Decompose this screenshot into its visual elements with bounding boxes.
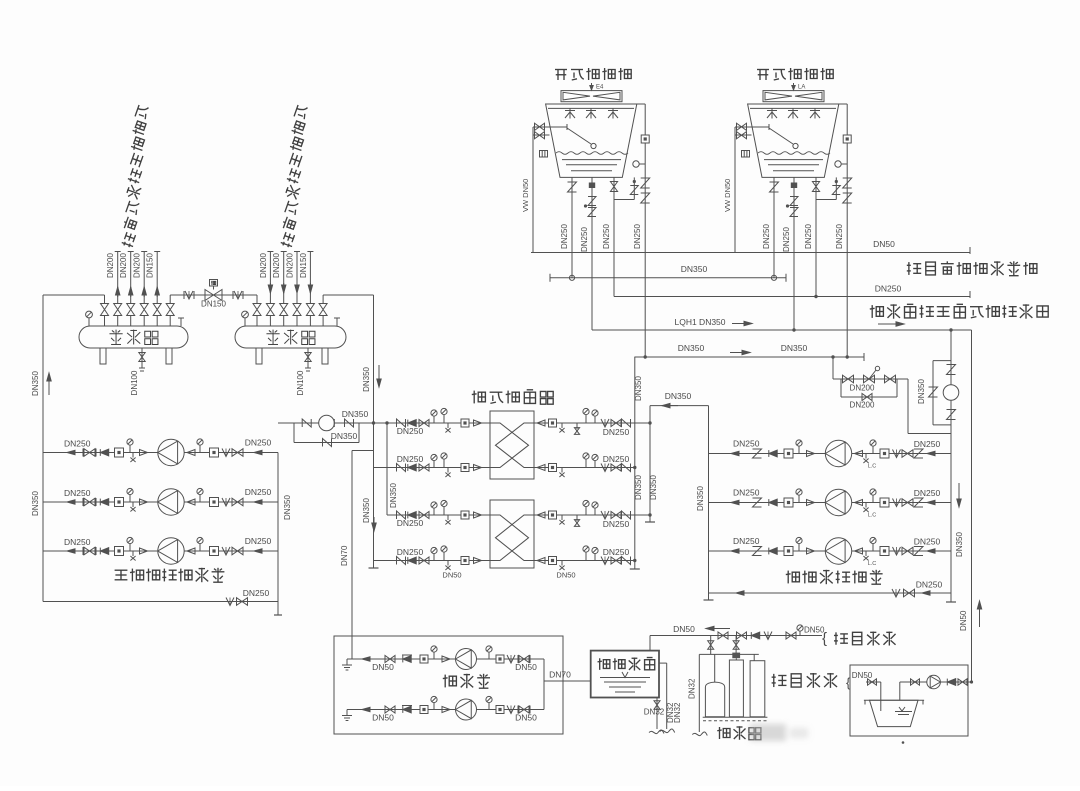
svg-text:DN250: DN250 bbox=[733, 488, 760, 498]
pump chiller-pump-row2 bbox=[158, 489, 184, 515]
flow arrow makeup-pump-row2 bbox=[362, 709, 373, 711]
svg-text:DN250: DN250 bbox=[603, 519, 630, 529]
meter bypass loop bbox=[293, 423, 295, 443]
spray header T2 bbox=[750, 107, 836, 109]
svg-text:DN250: DN250 bbox=[397, 518, 424, 528]
wire cooling bottom pipe y593 bbox=[709, 592, 952, 594]
reducer makeup-pump-row1 bbox=[442, 656, 450, 662]
soft joint chiller-pump-row3 bbox=[222, 547, 230, 555]
valve V2 on FSQ bbox=[117, 316, 119, 327]
vessel FSQ 分水器 body bbox=[79, 326, 188, 348]
flow arrow chiller-pump-row1 bbox=[67, 452, 81, 454]
svg-text:DN250: DN250 bbox=[602, 224, 611, 249]
filter cooling-pump-row3 discharge bbox=[880, 547, 889, 556]
check valve HX2-bot-left bbox=[408, 557, 416, 564]
label 软水器 bbox=[717, 726, 761, 740]
flow arrow cooling-pump-row1 end bbox=[927, 453, 940, 455]
filter makeup-pump-row2 bbox=[420, 706, 428, 714]
gauge HX2-top-left bbox=[443, 506, 445, 515]
reducer cooling-pump-row3 bbox=[807, 548, 815, 554]
valve cooling-pump-row3 bbox=[902, 547, 913, 555]
valve DN150 interconnect bbox=[205, 290, 222, 301]
wire makeup-pump-row2 pipe bbox=[347, 709, 544, 711]
flex joint cooling-pump-row1 end bbox=[914, 449, 923, 458]
wire HX1-top-right right pipe bbox=[534, 422, 650, 424]
sump enclosure box bbox=[850, 665, 968, 736]
check valve HX1-top-left bbox=[408, 420, 416, 427]
label riser-room text left (rotated) bbox=[120, 104, 150, 249]
drain HX1-bot-left bbox=[447, 468, 449, 473]
DN200 makeup branch bbox=[832, 357, 834, 379]
pump cooling-pump-row1 bbox=[825, 440, 851, 466]
svg-text:LA: LA bbox=[798, 85, 805, 91]
watermark blur bbox=[750, 724, 808, 741]
gauge HX1-bot-right bbox=[585, 459, 587, 468]
svg-text:DN250: DN250 bbox=[603, 454, 630, 464]
gauge chiller-pump-row1 discharge bbox=[199, 445, 201, 453]
drain direction arrow bbox=[878, 323, 904, 325]
valve chiller-pump-row3 discharge bbox=[232, 547, 243, 555]
flex joint below strainer bbox=[947, 410, 956, 420]
wire cooling connector y405.6 bbox=[650, 405, 709, 407]
check valve makeup-pump-row2 bbox=[403, 706, 411, 713]
filter cooling-pump-row2 bbox=[784, 498, 793, 507]
filter HX1-top-left bbox=[461, 419, 469, 427]
svg-text:DN250: DN250 bbox=[603, 427, 630, 437]
hot riser T1 bbox=[637, 103, 645, 105]
gauge tap bbox=[799, 631, 801, 636]
filter HX2-top-right bbox=[549, 511, 557, 519]
vent on FSQ bbox=[180, 318, 182, 326]
wire cooling-pump-row1 pipe bbox=[709, 453, 952, 455]
valve DN200 branch 2 bbox=[885, 375, 896, 383]
filter chiller-pump-row2 bbox=[115, 498, 124, 507]
JSQ riser DN200 #2 bbox=[283, 252, 285, 296]
vessel JSQ legs bbox=[256, 348, 262, 364]
softener base bbox=[703, 716, 768, 718]
svg-text:DN50: DN50 bbox=[673, 624, 695, 634]
filter makeup-pump-row1 bbox=[420, 655, 428, 663]
flex joint HX2-top-left bbox=[397, 511, 406, 519]
valve tap 3 bbox=[786, 632, 796, 639]
drain cooling-pump-row1 bbox=[865, 454, 867, 459]
svg-text:DN350: DN350 bbox=[665, 391, 692, 401]
gauge on FSQ bbox=[88, 318, 90, 326]
svg-text:DN250: DN250 bbox=[243, 588, 270, 598]
check valve chiller-pump-row3 bbox=[100, 548, 108, 555]
pump cooling-pump-row2 bbox=[825, 489, 851, 515]
label 主机侧循环水泵 bbox=[115, 568, 225, 582]
wire cooling-pump-row3 pipe bbox=[709, 550, 952, 552]
valve V6 on JSQ bbox=[322, 316, 324, 327]
drain HX1-top-left bbox=[447, 423, 449, 428]
gauge makeup-pump-row1 bbox=[433, 652, 435, 659]
basin water line T2 bbox=[758, 152, 830, 155]
reducer HX2-top-right bbox=[537, 512, 545, 518]
valve V3 on FSQ bbox=[130, 316, 132, 327]
filter HX2-bot-left bbox=[461, 557, 469, 565]
reducer HX1-top-right bbox=[537, 420, 545, 426]
svg-text:DN50: DN50 bbox=[852, 671, 873, 680]
flow arrow cooling-pump-row2 bbox=[731, 502, 745, 504]
svg-text:L.C: L.C bbox=[868, 561, 877, 567]
thermometer HX2-top-right bbox=[594, 508, 596, 515]
valve V5 on JSQ bbox=[309, 316, 311, 327]
valve HX1-top-right bbox=[611, 420, 621, 427]
svg-text:DN250: DN250 bbox=[914, 439, 941, 449]
svg-text:DN200: DN200 bbox=[133, 253, 142, 278]
reducer chiller-pump-row3 suction bbox=[140, 548, 148, 554]
makeup double valve T1 bbox=[533, 126, 549, 128]
strainer circle bbox=[943, 385, 959, 401]
valve V1 on JSQ bbox=[256, 316, 258, 327]
filter chiller-pump-row3 bbox=[115, 547, 124, 556]
check valve cooling-pump-row3 bbox=[769, 548, 777, 555]
thermometer HX2-top-left bbox=[433, 508, 435, 515]
spray nozzle T1 bbox=[565, 110, 575, 112]
check valve cooling-pump-row2 bbox=[769, 499, 777, 506]
FSQ drain DN100 bbox=[141, 348, 143, 368]
wire LQH1 DN350 line y330 bbox=[592, 329, 972, 331]
svg-text:DN350: DN350 bbox=[31, 371, 40, 396]
svg-text:DN250: DN250 bbox=[64, 439, 91, 449]
wire HX2-top-left left pipe bbox=[387, 514, 490, 516]
drain HX2-bot-right bbox=[561, 561, 563, 566]
filter chiller-pump-row3 discharge bbox=[210, 547, 219, 556]
wire DN350 hot header y357 bbox=[634, 356, 864, 358]
reducer cooling-pump-row3 discharge bbox=[855, 548, 863, 554]
flow arrow chiller-pump-row3 discharge bbox=[254, 550, 268, 552]
reducer HX1-bot-left bbox=[474, 465, 482, 471]
softener control head bbox=[732, 653, 740, 659]
gauge cooling-pump-row2 discharge bbox=[872, 495, 874, 503]
drain HX1-top-right bbox=[561, 423, 563, 428]
heat exchanger HX1 body bbox=[490, 411, 534, 479]
label 冷却水循环泵 bbox=[786, 570, 883, 584]
svg-text:DN350: DN350 bbox=[342, 409, 369, 419]
drain cooling-pump-row2 bbox=[865, 503, 867, 508]
soft joint chiller-pump-row1 bbox=[222, 449, 230, 457]
wire makeup DN50 header y252.5 bbox=[531, 252, 970, 254]
check valve cooling-pump-row1 bbox=[769, 450, 777, 457]
wire interconnect FSQ-JSQ bbox=[170, 294, 257, 296]
wire chiller-pump-row2 pipe bbox=[43, 501, 278, 503]
spray header T1 bbox=[548, 107, 634, 109]
flow arrow on connector bbox=[662, 405, 678, 407]
tower body T1 bbox=[546, 104, 637, 177]
gauge HX2-top-right bbox=[585, 506, 587, 515]
gauge cooling-pump-row3 suction bbox=[798, 543, 800, 551]
suction symbol makeup-pump-row1 bbox=[346, 659, 348, 665]
valve DN200 branch 1 bbox=[843, 375, 854, 383]
reducer chiller-pump-row1 suction bbox=[140, 450, 148, 456]
filter makeup-pump-row1 discharge bbox=[496, 655, 504, 663]
gauge cooling-pump-row2 suction bbox=[798, 495, 800, 503]
svg-text:DN250: DN250 bbox=[245, 536, 272, 546]
soft joint cooling-pump-row2 bbox=[893, 499, 901, 507]
quick fill fitting T1 bbox=[540, 151, 548, 158]
gauge HX2-bot-left bbox=[443, 552, 445, 561]
wire DN250 drain line y296.5 bbox=[614, 296, 970, 298]
reducer HX2-bot-left bbox=[474, 558, 482, 564]
filter cooling-pump-row2 discharge bbox=[880, 498, 889, 507]
pipe left border DN350 vertical bbox=[42, 295, 44, 602]
drain HX2-top-right bbox=[561, 515, 563, 520]
svg-text:DN250: DN250 bbox=[914, 537, 941, 547]
wire HX2-top-right right pipe bbox=[534, 514, 650, 516]
wire tap to sump tank bbox=[866, 681, 881, 683]
sump tank bbox=[864, 699, 924, 701]
wire chiller-pump-row3 pipe bbox=[43, 550, 278, 552]
svg-text:{: { bbox=[822, 630, 827, 647]
wire suction from tank DN70 bbox=[544, 680, 591, 682]
flex joint cooling-pump-row2 bbox=[753, 498, 762, 507]
wire cooling-pump-row2 pipe bbox=[709, 502, 952, 504]
reducer cooling-pump-row1 discharge bbox=[855, 451, 863, 457]
filter chiller-pump-row1 bbox=[115, 448, 124, 457]
svg-text:DN250: DN250 bbox=[782, 227, 791, 252]
valve on DN200 bypass bbox=[862, 394, 872, 401]
svg-text:DN200: DN200 bbox=[850, 384, 875, 393]
flow arrow cooling-pump-row2 end bbox=[927, 502, 940, 504]
flow arrow cooling-pump-row3 bbox=[731, 550, 745, 552]
svg-text:DN350: DN350 bbox=[649, 475, 658, 500]
spray nozzle T2 bbox=[788, 110, 798, 112]
makeup pipe VW DN50 T2 bbox=[734, 127, 736, 253]
flex joint left of DN150 valve bbox=[185, 291, 193, 299]
check valve chiller-pump-row2 bbox=[100, 499, 108, 506]
valve tap 1 bbox=[718, 632, 728, 639]
valve makeup-pump-row2 bbox=[385, 706, 395, 713]
pipe cooling suction header x708.5 bbox=[708, 406, 710, 600]
svg-text:DN150: DN150 bbox=[299, 253, 308, 278]
pump makeup-pump-row2 bbox=[456, 699, 477, 720]
wire HX1-bot-right right pipe bbox=[534, 467, 635, 469]
svg-text:DN250: DN250 bbox=[397, 426, 424, 436]
float valve T1 bbox=[549, 126, 568, 128]
FSQ riser DN200 #1 bbox=[117, 252, 119, 296]
outlet pipe3 T2 w/ check bbox=[815, 177, 817, 296]
pipe DN70 drop to makeup pumps bbox=[352, 450, 374, 452]
filter cooling-pump-row1 discharge bbox=[880, 449, 889, 458]
drain tag above DN150 valve bbox=[213, 286, 215, 290]
makeup double valve T2 bbox=[735, 126, 751, 128]
svg-text:DN250: DN250 bbox=[603, 547, 630, 557]
soft joint cooling-pump-row1 bbox=[893, 450, 901, 458]
sump pump bbox=[927, 675, 941, 689]
flow arrow makeup-pump-row1 bbox=[362, 658, 373, 660]
pipe V1 x634.8 (HX bottoms to tower header) bbox=[634, 357, 636, 569]
soft joint cooling-pump-row3 bbox=[893, 547, 901, 555]
svg-text:DN200: DN200 bbox=[272, 253, 281, 278]
flex joint HX1-bot-left bbox=[397, 464, 406, 472]
FSQ riser DN200 #2 bbox=[130, 252, 132, 296]
makeup pipe VW DN50 T1 bbox=[532, 127, 534, 253]
valve cooling-pump-row2 bbox=[902, 499, 913, 507]
thermometer HX2-bot-right bbox=[594, 553, 596, 560]
check valve HX1-bot-left bbox=[408, 464, 416, 471]
JSQ riser DN200 #3 bbox=[296, 252, 298, 296]
svg-text:DN100: DN100 bbox=[296, 370, 305, 395]
drain HX2-top-left bbox=[447, 515, 449, 520]
svg-text:DN32: DN32 bbox=[644, 708, 665, 717]
quick fill fitting T2 bbox=[742, 151, 750, 158]
svg-text:DN250: DN250 bbox=[633, 224, 642, 249]
svg-text:DN200: DN200 bbox=[850, 401, 875, 410]
label 接自来水 upper bbox=[834, 632, 896, 646]
valve HX2-bot-left bbox=[419, 557, 429, 564]
valve makeup-pump-row2 discharge bbox=[519, 706, 529, 713]
valve cooling-pump-row1 bbox=[902, 450, 913, 458]
svg-text:DN250: DN250 bbox=[64, 537, 91, 547]
svg-text:DN70: DN70 bbox=[549, 670, 571, 680]
drain chiller-pump-row3 suction bbox=[132, 551, 134, 556]
valve chiller-pump-row1 suction bbox=[84, 449, 95, 457]
wire JSQ right header to down line bbox=[323, 294, 373, 296]
gauge chiller-pump-row2 discharge bbox=[199, 494, 201, 502]
drain chiller-pump-row1 suction bbox=[132, 453, 134, 458]
gauge chiller-pump-row3 discharge bbox=[199, 543, 201, 551]
filter cooling-pump-row1 bbox=[784, 449, 793, 458]
valve chiller-pump-row3 suction bbox=[84, 547, 95, 555]
outlet pipe3 T1 w/ check bbox=[613, 177, 615, 296]
svg-text:DN50: DN50 bbox=[515, 713, 537, 723]
reducer cooling-pump-row2 discharge bbox=[855, 500, 863, 506]
reducer chiller-pump-row2 suction bbox=[140, 499, 148, 505]
svg-text:DN100: DN100 bbox=[130, 370, 139, 395]
spray nozzle T1 bbox=[608, 110, 618, 112]
label 接自空调补水系统 bbox=[907, 261, 1037, 275]
svg-text:DN350: DN350 bbox=[696, 486, 705, 511]
flow arrow chiller-pump-row2 discharge bbox=[254, 501, 268, 503]
flow arrow chiller-pump-row1 discharge bbox=[254, 452, 268, 454]
reducer HX2-bot-right bbox=[537, 558, 545, 564]
flex joint before meter bbox=[302, 419, 311, 427]
svg-text:DN350: DN350 bbox=[331, 431, 358, 441]
pipe JSQ drop DN350 vertical x373 bbox=[373, 295, 375, 568]
svg-text:DN50: DN50 bbox=[372, 713, 394, 723]
svg-text:DN250: DN250 bbox=[916, 580, 943, 590]
valve HX2-bot-right bbox=[611, 557, 621, 564]
wire FSQ left header to border bbox=[43, 294, 105, 296]
flow arrow cooling-pump-row3 end bbox=[927, 550, 940, 552]
soft joint HX1-bot-right bbox=[601, 464, 609, 472]
valve chiller-pump-row1 discharge bbox=[232, 449, 243, 457]
basin overflow T2 bbox=[835, 177, 837, 199]
svg-text:DN250: DN250 bbox=[762, 224, 771, 249]
drain chiller-pump-row2 suction bbox=[132, 502, 134, 507]
wire HX1-bot-left left pipe bbox=[374, 467, 491, 469]
soft joint chiller-pump-row2 bbox=[222, 498, 230, 506]
makeup header right x544 bbox=[543, 659, 545, 710]
valve makeup-pump-row1 discharge bbox=[519, 656, 529, 663]
svg-text:DN350: DN350 bbox=[283, 495, 292, 520]
gauge makeup-pump-row2 bbox=[433, 702, 435, 709]
soft joint bottom bbox=[892, 589, 900, 597]
svg-text:DN250: DN250 bbox=[245, 487, 272, 497]
basin lines T2 bbox=[764, 159, 823, 161]
valve V6 on FSQ bbox=[169, 316, 171, 327]
svg-text:DN32: DN32 bbox=[673, 702, 682, 723]
pump makeup-pump-row1 bbox=[456, 649, 477, 670]
svg-text:DN350: DN350 bbox=[678, 343, 705, 353]
check valve sump bbox=[947, 679, 955, 686]
svg-text:L.C: L.C bbox=[868, 464, 877, 470]
valve tap 2 bbox=[737, 632, 747, 639]
valve bottom pipe bbox=[237, 598, 248, 606]
flex joint after meter bbox=[345, 419, 354, 427]
valve V4 on FSQ bbox=[143, 316, 145, 327]
pump cooling-pump-row3 bbox=[825, 538, 851, 564]
svg-text:DN350: DN350 bbox=[389, 483, 398, 508]
flex joint HX2-bot-right bbox=[622, 557, 631, 565]
reducer chiller-pump-row2 discharge bbox=[187, 499, 195, 505]
wire DN350 tower suction header y277.8 bbox=[550, 277, 786, 279]
hot riser T2 bbox=[839, 103, 847, 105]
wire HX2-bot-left left pipe bbox=[374, 560, 491, 562]
svg-text:DN150: DN150 bbox=[146, 253, 155, 278]
svg-text:DN350: DN350 bbox=[681, 264, 708, 274]
svg-text:DN350: DN350 bbox=[917, 379, 926, 404]
label 接自来水 middle bbox=[772, 673, 837, 688]
gauge makeup-pump-row1 discharge bbox=[488, 652, 490, 659]
strainer bypass loop bbox=[933, 360, 951, 362]
filter HX1-bot-right bbox=[549, 464, 557, 472]
check valve makeup-pump-row1 bbox=[403, 656, 411, 663]
water level lines in tank bbox=[600, 677, 650, 679]
svg-text:DN250: DN250 bbox=[733, 439, 760, 449]
label 开式冷却塔 T2 bbox=[757, 68, 833, 80]
vessel JSQ 集水器 body bbox=[235, 326, 346, 348]
filter chiller-pump-row1 discharge bbox=[210, 448, 219, 457]
pipe cooling return header x951 bbox=[950, 330, 952, 602]
reducer cooling-pump-row1 bbox=[807, 451, 815, 457]
sump water level bbox=[899, 707, 905, 711]
reducer chiller-pump-row3 discharge bbox=[187, 548, 195, 554]
svg-text:DN250: DN250 bbox=[835, 224, 844, 249]
svg-text:DN250: DN250 bbox=[914, 488, 941, 498]
spray nozzle T2 bbox=[810, 110, 820, 112]
label riser-room text right (rotated) bbox=[279, 104, 309, 249]
label 开式冷却塔 T1 bbox=[555, 68, 631, 80]
JSQ drain DN100 bbox=[307, 348, 309, 368]
valve V3 on JSQ bbox=[283, 316, 285, 327]
valve chiller-pump-row2 suction bbox=[84, 498, 95, 506]
svg-text:DN250: DN250 bbox=[875, 284, 902, 294]
softener column 2 bbox=[750, 661, 765, 717]
flow arrow bottom bbox=[922, 592, 935, 594]
valve V4 on JSQ bbox=[296, 316, 298, 327]
gauge makeup-pump-row2 discharge bbox=[488, 702, 490, 709]
DN200 bypass loop bbox=[840, 379, 842, 397]
filter HX2-top-left bbox=[461, 511, 469, 519]
gauge HX2-bot-right bbox=[585, 552, 587, 561]
thermometer HX1-bot-left bbox=[433, 460, 435, 467]
reducer chiller-pump-row1 discharge bbox=[187, 450, 195, 456]
valve sump bbox=[911, 679, 920, 685]
gauge HX1-top-left bbox=[443, 414, 445, 423]
flow arrow cooling-pump-row1 bbox=[731, 453, 745, 455]
svg-text:LQH1 DN350: LQH1 DN350 bbox=[674, 317, 725, 327]
meter device circle bbox=[319, 415, 335, 431]
pressure reducing valve DN200 bbox=[864, 375, 875, 383]
filter chiller-pump-row2 discharge bbox=[210, 498, 219, 507]
svg-text:E4: E4 bbox=[596, 85, 604, 91]
fan label T1 bbox=[591, 83, 593, 89]
basin lines T1 bbox=[562, 159, 621, 161]
up arrow beside x971.5 bbox=[979, 601, 981, 627]
soft joint HX2-top-right bbox=[601, 511, 609, 519]
